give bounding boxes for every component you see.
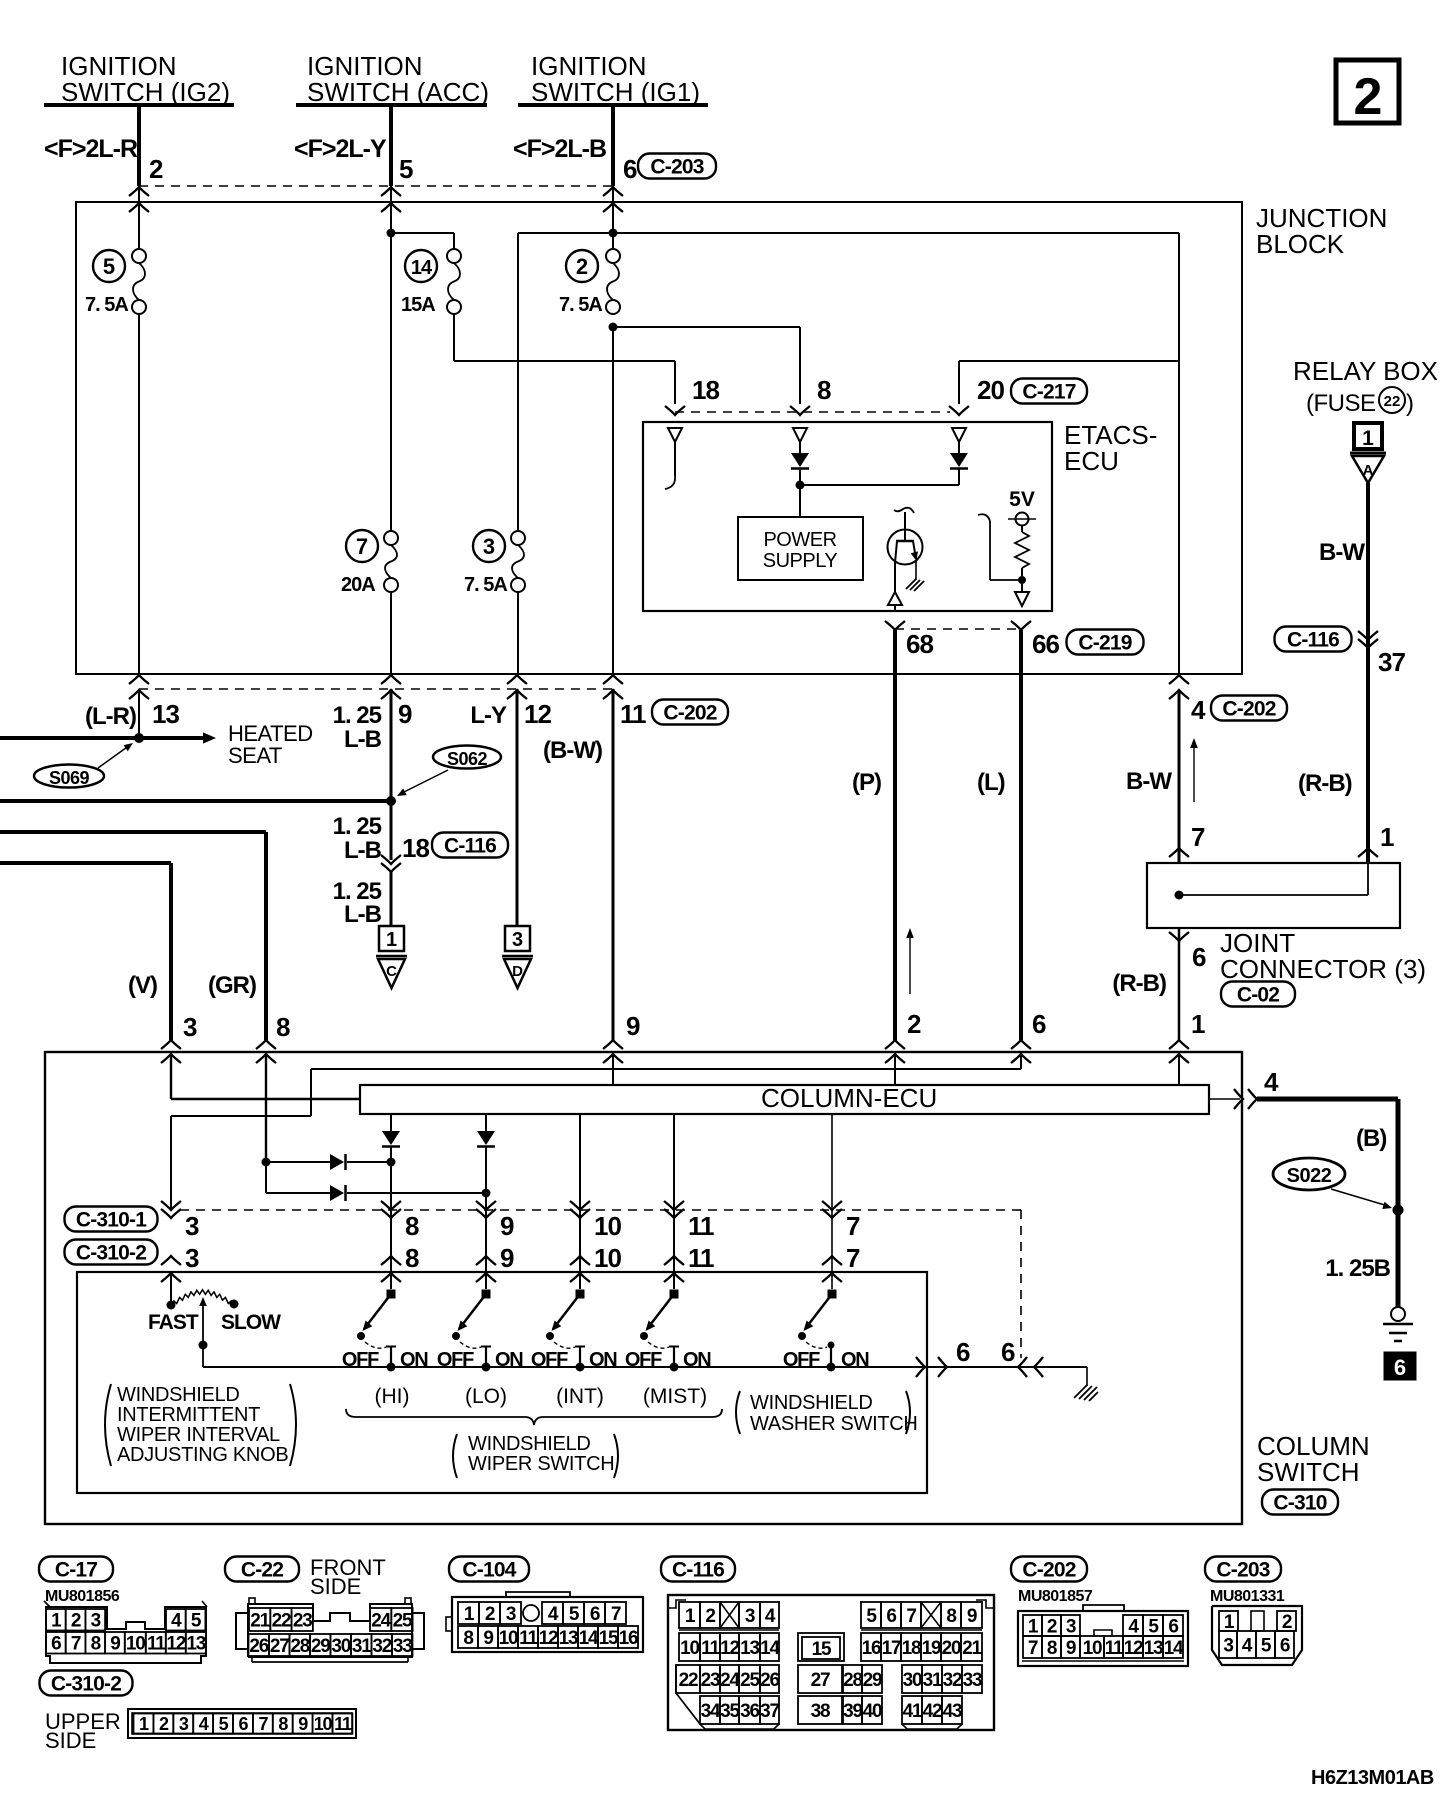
arrow S062 to node [400, 770, 448, 794]
svg-text:7: 7 [258, 1714, 268, 1734]
svg-text:7. 5A: 7. 5A [464, 574, 507, 596]
connector C-310-2 label [40, 1671, 133, 1696]
ECU output 4 to ground [1210, 1098, 1240, 1100]
svg-text:1: 1 [386, 929, 397, 951]
svg-text:C: C [386, 963, 397, 980]
svg-text:7: 7 [846, 1211, 860, 1241]
wire IG1 feed [611, 105, 615, 186]
svg-text:28: 28 [290, 1636, 309, 1657]
ground symbol [1391, 1307, 1405, 1321]
svg-text:5: 5 [399, 154, 413, 184]
svg-text:8: 8 [1047, 1638, 1057, 1659]
C-310-1 pin 7 [822, 1201, 842, 1210]
svg-text:37: 37 [760, 1701, 779, 1722]
svg-text:C-116: C-116 [444, 835, 496, 858]
svg-text:SUPPLY: SUPPLY [763, 550, 838, 572]
svg-text:MU801331: MU801331 [1210, 1588, 1285, 1605]
svg-text:31: 31 [352, 1636, 372, 1657]
svg-text:1: 1 [51, 1611, 62, 1632]
svg-text:9: 9 [110, 1634, 120, 1655]
svg-text:11: 11 [519, 1628, 538, 1649]
svg-text:39: 39 [843, 1701, 862, 1722]
svg-text:1: 1 [1191, 1009, 1205, 1039]
svg-text:C-203: C-203 [1216, 1559, 1269, 1582]
wire to body ground [1034, 1366, 1087, 1368]
svg-text:25: 25 [393, 1610, 413, 1631]
joint connector box C-02 [1147, 863, 1400, 928]
sheet number 2 box [1336, 60, 1399, 123]
svg-text:4: 4 [171, 1611, 182, 1632]
svg-text:FAST: FAST [148, 1311, 199, 1334]
svg-text:27: 27 [270, 1636, 289, 1657]
svg-text:): ) [1406, 390, 1414, 417]
ETACS entry chevron pin 18 [665, 406, 685, 415]
svg-text:(R-B): (R-B) [1112, 970, 1166, 997]
junction node ACC branch [387, 229, 396, 238]
svg-text:B-W: B-W [1319, 539, 1365, 566]
wiper switch contact MIST [670, 1290, 679, 1299]
svg-text:3: 3 [91, 1611, 101, 1632]
svg-text:3: 3 [183, 1012, 197, 1042]
svg-text:C-202: C-202 [1022, 1559, 1075, 1582]
svg-text:7. 5A: 7. 5A [85, 294, 128, 316]
wire R-B below joint connector [1178, 928, 1181, 1040]
diode D3 horizontal [266, 1161, 330, 1163]
svg-text:SIDE: SIDE [310, 1574, 361, 1599]
svg-text:(GR): (GR) [208, 972, 256, 999]
svg-text:2: 2 [485, 1604, 495, 1625]
svg-text:SLOW: SLOW [221, 1311, 281, 1334]
column entry chevrons wire 6 [1011, 1040, 1031, 1049]
svg-text:4: 4 [765, 1606, 776, 1627]
svg-text:11: 11 [1105, 1638, 1124, 1659]
connector C-310-1 dashed line [180, 1209, 1021, 1211]
svg-text:C-310-1: C-310-1 [76, 1209, 147, 1232]
svg-text:5: 5 [1261, 1635, 1272, 1656]
relay box terminal 1 [1354, 423, 1382, 449]
wire pin20 drop [959, 360, 1179, 362]
svg-text:38: 38 [811, 1701, 830, 1722]
svg-text:12: 12 [1124, 1638, 1143, 1659]
wire GR inside box [265, 1054, 267, 1162]
switch body entry chevron 3 [161, 1273, 181, 1282]
svg-text:A: A [1363, 462, 1374, 479]
connector C-104 label [449, 1557, 529, 1582]
joint connector internal node [1175, 891, 1184, 900]
svg-text:41: 41 [903, 1701, 923, 1722]
svg-text:33: 33 [963, 1670, 982, 1691]
svg-text:37: 37 [1378, 647, 1405, 677]
svg-text:6: 6 [623, 154, 637, 184]
column entry chevrons wire 1 [1169, 1040, 1189, 1049]
internal ground hatch [906, 579, 916, 589]
connector pass-through chevrons IG2 [129, 187, 149, 196]
svg-text:6: 6 [1168, 1616, 1178, 1637]
svg-text:S062: S062 [447, 749, 488, 769]
svg-text:14: 14 [411, 257, 433, 279]
power supply box [738, 517, 863, 580]
svg-text:3: 3 [483, 534, 495, 559]
svg-text:3: 3 [745, 1606, 755, 1627]
svg-text:L-B: L-B [344, 901, 382, 928]
svg-text:1: 1 [685, 1606, 696, 1627]
svg-text:42: 42 [923, 1701, 942, 1722]
svg-text:C-104: C-104 [462, 1559, 516, 1582]
svg-text:OFF: OFF [531, 1349, 568, 1371]
svg-text:<F>2L-R: <F>2L-R [44, 135, 138, 163]
svg-text:MU801857: MU801857 [1018, 1588, 1093, 1605]
svg-text:1: 1 [1028, 1616, 1039, 1637]
column switch outline [45, 1052, 1242, 1524]
svg-text:3: 3 [1066, 1616, 1076, 1637]
svg-text:<F>2L-Y: <F>2L-Y [294, 135, 387, 163]
svg-text:14: 14 [760, 1638, 780, 1659]
svg-text:C-17: C-17 [55, 1559, 97, 1582]
svg-text:WINDSHIELD: WINDSHIELD [468, 1433, 591, 1455]
body ground hatch [1074, 1385, 1087, 1398]
connector C-104 pinout [452, 1597, 643, 1652]
node diode D3 out [387, 1158, 396, 1167]
connector C-17 pinout [46, 1607, 206, 1631]
svg-text:28: 28 [843, 1670, 862, 1691]
junction node S062 [386, 796, 396, 806]
svg-text:16: 16 [862, 1638, 881, 1659]
connector C-116 crossing relay wire [1275, 627, 1352, 652]
svg-text:5: 5 [866, 1606, 877, 1627]
svg-text:C-203: C-203 [650, 156, 703, 179]
svg-text:36: 36 [740, 1701, 759, 1722]
wire B-W junction to joint connector [1178, 690, 1181, 863]
wire fuse2 down to block exit 11 [612, 327, 614, 674]
fuse F3 7.5A [511, 531, 525, 545]
svg-text:6: 6 [239, 1714, 249, 1734]
svg-text:8: 8 [276, 1012, 290, 1042]
svg-text:11: 11 [334, 1714, 352, 1734]
ETACS pin 18 input terminal [668, 428, 682, 442]
ECU wire 10 [579, 1113, 581, 1289]
svg-text:5: 5 [569, 1604, 580, 1625]
svg-text:30: 30 [903, 1670, 922, 1691]
svg-text:WIPER INTERVAL: WIPER INTERVAL [117, 1424, 280, 1446]
svg-text:66: 66 [1032, 629, 1059, 659]
svg-text:1: 1 [139, 1714, 149, 1734]
connector C-22 pinout [236, 1613, 248, 1649]
ETACS pin 66 terminal [1021, 584, 1023, 592]
svg-text:ADJUSTING KNOB: ADJUSTING KNOB [117, 1444, 288, 1466]
fuse circle 7 [346, 530, 378, 562]
C-310-1 pin 10 [570, 1201, 590, 1210]
svg-text:10: 10 [314, 1714, 333, 1734]
C-310-2 pin 3 [161, 1256, 181, 1265]
windshield intermittent knob label [105, 1384, 111, 1466]
svg-text:C-202: C-202 [663, 702, 716, 725]
svg-text:OFF: OFF [625, 1349, 662, 1371]
joint connector internal wire [1179, 894, 1368, 896]
svg-text:7: 7 [71, 1634, 81, 1655]
wire (B) ground lead [1257, 1097, 1398, 1102]
svg-text:ON: ON [589, 1349, 617, 1371]
wire (P) pin 68 to column switch [893, 630, 897, 1040]
svg-text:8: 8 [278, 1714, 288, 1734]
ECU wire 7 washer [831, 1113, 833, 1289]
svg-text:2: 2 [159, 1714, 169, 1734]
wire IG1 branch to ETACS pin 20 feed [613, 232, 1179, 234]
svg-text:C-310: C-310 [1273, 1492, 1326, 1515]
svg-text:23: 23 [293, 1610, 312, 1631]
svg-text:10: 10 [126, 1634, 145, 1655]
wire sense branch [990, 579, 1022, 581]
washer circuit exit chevrons pin 6 [916, 1357, 925, 1377]
svg-text:13: 13 [152, 699, 179, 729]
connector C-17 label [39, 1557, 113, 1582]
wire IG2 to heated seat node [138, 689, 140, 738]
svg-text:20: 20 [977, 375, 1004, 405]
connector C-116 pinout [668, 1595, 994, 1730]
svg-text:3: 3 [185, 1211, 199, 1241]
svg-text:C-310-2: C-310-2 [51, 1673, 121, 1696]
switch body entry chevron 7 [822, 1273, 842, 1282]
svg-text:(FUSE: (FUSE [1306, 390, 1376, 417]
svg-text:WINDSHIELD: WINDSHIELD [750, 1392, 873, 1414]
svg-text:20A: 20A [341, 574, 375, 596]
C-310-2 pin 8 [381, 1256, 401, 1265]
svg-text:C-219: C-219 [1078, 632, 1131, 655]
svg-text:5: 5 [219, 1714, 229, 1734]
C-310-2 pin 9 [476, 1256, 496, 1265]
block exit chevrons x139 [129, 675, 149, 684]
svg-text:1: 1 [1380, 822, 1394, 852]
svg-text:6: 6 [1280, 1635, 1290, 1656]
splice S062 [433, 746, 501, 769]
switch body entry chevron 9 [476, 1273, 496, 1282]
connector C-116 label [661, 1557, 735, 1582]
svg-text:8: 8 [91, 1634, 101, 1655]
svg-text:2: 2 [1047, 1616, 1057, 1637]
svg-text:1. 25B: 1. 25B [1325, 1255, 1390, 1282]
wire ACC feed [389, 105, 393, 186]
junction block exit dashed C-202 row [139, 688, 613, 690]
connector pass-through chevrons ACC [381, 187, 401, 196]
wire heated seat feed from left [0, 736, 139, 740]
svg-text:INTERMITTENT: INTERMITTENT [117, 1404, 260, 1426]
svg-text:3: 3 [1223, 1635, 1233, 1656]
svg-text:H6Z13M01AB: H6Z13M01AB [1311, 1767, 1434, 1789]
terminal A triangle [1350, 452, 1386, 455]
svg-text:<F>2L-B: <F>2L-B [513, 135, 606, 163]
junction node S022 [1393, 1205, 1404, 1216]
connector C-203 label [1205, 1557, 1281, 1582]
fuse circle 14 [405, 250, 437, 282]
connector row dashed line C-203 [139, 185, 613, 187]
svg-text:24: 24 [720, 1670, 740, 1691]
svg-text:8: 8 [405, 1211, 419, 1241]
svg-text:6: 6 [1032, 1009, 1046, 1039]
svg-text:ECU: ECU [1064, 446, 1119, 476]
svg-text:20: 20 [942, 1638, 961, 1659]
wire 11 down to column switch [612, 689, 615, 1040]
svg-text:WASHER SWITCH: WASHER SWITCH [750, 1413, 918, 1435]
svg-text:C-116: C-116 [672, 1559, 724, 1582]
svg-text:19: 19 [922, 1638, 941, 1659]
wire IG1 in junction block [612, 186, 614, 249]
svg-text:18: 18 [402, 833, 429, 863]
svg-text:1: 1 [1362, 427, 1374, 450]
wire 6 route inside column switch [1020, 1054, 1022, 1069]
diode D1 [382, 1131, 400, 1145]
svg-text:21: 21 [962, 1638, 982, 1659]
wire fuse3 output below block [516, 689, 519, 926]
ETACS entry chevron pin 8 [790, 406, 810, 415]
svg-text:22: 22 [272, 1610, 291, 1631]
C-310-2 pin 7 [822, 1256, 842, 1265]
svg-text:15: 15 [812, 1639, 832, 1660]
svg-text:5: 5 [103, 254, 115, 279]
windshield wiper switch label [453, 1434, 457, 1478]
junction node S069 [134, 733, 144, 743]
wire fuse14 to ETACS pin 18 [453, 314, 455, 361]
svg-text:4: 4 [1242, 1635, 1253, 1656]
fuse circle 3 [473, 530, 505, 562]
diode D4 horizontal [266, 1192, 330, 1194]
svg-text:22: 22 [679, 1670, 698, 1691]
fuse circle 5 [93, 250, 125, 282]
wire ACC below block [390, 689, 393, 860]
svg-text:3: 3 [506, 1604, 516, 1625]
wire IG2 in junction block [138, 186, 140, 249]
svg-text:12: 12 [524, 699, 551, 729]
wire ACC branch to fuse 14 [391, 232, 454, 234]
ETACS pin 20 terminal and diode [958, 469, 960, 485]
node GR branch [262, 1158, 271, 1167]
svg-text:RELAY BOX: RELAY BOX [1293, 356, 1438, 386]
svg-text:2: 2 [907, 1009, 921, 1039]
svg-text:7: 7 [906, 1606, 916, 1627]
svg-text:WINDSHIELD: WINDSHIELD [117, 1384, 240, 1406]
block exit chevrons x613 [603, 675, 623, 684]
wiper switch contact WASHER [828, 1290, 837, 1299]
C-310-1 pin 3 [161, 1201, 181, 1210]
svg-text:9: 9 [398, 699, 412, 729]
svg-text:22: 22 [1384, 393, 1401, 410]
svg-text:11: 11 [701, 1638, 720, 1659]
svg-text:SWITCH: SWITCH [1257, 1457, 1360, 1487]
svg-text:ON: ON [400, 1349, 428, 1371]
connector C-202 label [1011, 1557, 1087, 1582]
svg-text:6: 6 [956, 1337, 970, 1367]
svg-text:10: 10 [594, 1211, 621, 1241]
fuse F7 20A [384, 531, 398, 545]
svg-text:7: 7 [1191, 822, 1205, 852]
terminal 3 D [505, 926, 530, 951]
svg-text:D: D [512, 963, 523, 980]
svg-text:18: 18 [692, 375, 719, 405]
wiper switch group brace [346, 1409, 722, 1425]
svg-text:27: 27 [811, 1670, 830, 1691]
svg-text:ON: ON [495, 1349, 523, 1371]
COLUMN-ECU box [360, 1085, 1209, 1114]
svg-text:7: 7 [846, 1243, 860, 1273]
svg-text:2: 2 [149, 154, 163, 184]
svg-text:31: 31 [923, 1670, 943, 1691]
svg-text:5V: 5V [1009, 488, 1035, 511]
svg-text:9: 9 [500, 1211, 514, 1241]
wire diode bus [800, 484, 959, 486]
svg-text:3: 3 [185, 1243, 199, 1273]
arrow S069 to node [98, 745, 130, 768]
inner switch body box [77, 1272, 927, 1493]
svg-text:13: 13 [1144, 1638, 1163, 1659]
flow arrow up [1193, 745, 1195, 802]
wire to terminal C [390, 872, 393, 926]
node diode junction [796, 481, 805, 490]
wire IG2 feed [137, 105, 141, 186]
connector C-203 pinout [1212, 1606, 1302, 1665]
flow arrow up P [909, 935, 911, 994]
connector label C-219 [1067, 630, 1144, 655]
svg-text:4: 4 [1264, 1067, 1279, 1097]
svg-text:68: 68 [906, 629, 933, 659]
svg-text:7: 7 [611, 1604, 621, 1625]
svg-text:11: 11 [688, 1211, 714, 1241]
svg-text:SWITCH (IG2): SWITCH (IG2) [61, 77, 230, 107]
svg-text:COLUMN-ECU: COLUMN-ECU [761, 1083, 937, 1113]
fuse F14 15A [447, 249, 461, 263]
node resistor bottom [1018, 576, 1026, 584]
fuse F5 7.5A [132, 249, 146, 263]
svg-text:43: 43 [943, 1701, 962, 1722]
ETACS connector C-219 exit dashed [895, 628, 1021, 630]
svg-text:3: 3 [512, 929, 523, 951]
block exit chevrons x517 [507, 675, 527, 684]
svg-text:10: 10 [594, 1243, 621, 1273]
ETACS pin 68 output terminal [894, 563, 896, 592]
svg-text:ON: ON [841, 1349, 869, 1371]
svg-text:C-116: C-116 [1287, 629, 1339, 652]
wire (GR) feed from left [0, 830, 266, 834]
svg-text:C-217: C-217 [1022, 381, 1075, 404]
svg-text:ON: ON [683, 1349, 711, 1371]
svg-text:16: 16 [619, 1628, 638, 1649]
svg-text:SWITCH (ACC): SWITCH (ACC) [307, 77, 489, 107]
svg-text:(R-B): (R-B) [1298, 770, 1352, 797]
windshield washer switch label [736, 1391, 740, 1434]
wire IG1 branch to fuse 3 [518, 232, 613, 234]
svg-text:13: 13 [740, 1638, 759, 1659]
diode D2 [477, 1131, 495, 1145]
svg-text:(P): (P) [852, 769, 881, 796]
wiper switch contact LO [482, 1290, 491, 1299]
svg-text:OFF: OFF [342, 1349, 379, 1371]
wire fuse5 to block bottom [138, 314, 140, 674]
ETACS connector C-217 entry dashed [675, 411, 950, 413]
svg-text:(INT): (INT) [556, 1385, 604, 1408]
svg-text:MU801856: MU801856 [45, 1588, 120, 1605]
svg-text:1. 25: 1. 25 [333, 813, 382, 840]
svg-text:29: 29 [863, 1670, 882, 1691]
connector C-22 label [225, 1557, 299, 1582]
svg-text:POWER: POWER [763, 529, 836, 551]
ETACS entry chevron pin 20 [949, 406, 969, 415]
svg-text:13: 13 [559, 1628, 578, 1649]
svg-text:7. 5A: 7. 5A [559, 294, 602, 316]
svg-text:8: 8 [817, 375, 831, 405]
wire fuse2 to ETACS pin 8 [613, 326, 800, 328]
column entry chevrons wire 2 [885, 1040, 905, 1049]
svg-text:2: 2 [576, 254, 588, 279]
column entry chevrons wire 9 [603, 1040, 623, 1049]
svg-text:BLOCK: BLOCK [1256, 229, 1345, 259]
fuse F2 7.5A [606, 249, 620, 263]
